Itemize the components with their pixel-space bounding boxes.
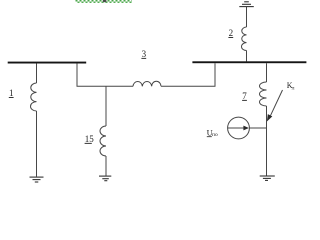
svg-text:7: 7: [242, 91, 247, 101]
svg-text:2: 2: [229, 28, 234, 38]
svg-text:по: по: [212, 132, 218, 138]
svg-text:3: 3: [142, 49, 147, 59]
svg-text:15: 15: [85, 134, 95, 144]
svg-text:1: 1: [9, 88, 14, 98]
svg-text:л: л: [292, 86, 295, 92]
